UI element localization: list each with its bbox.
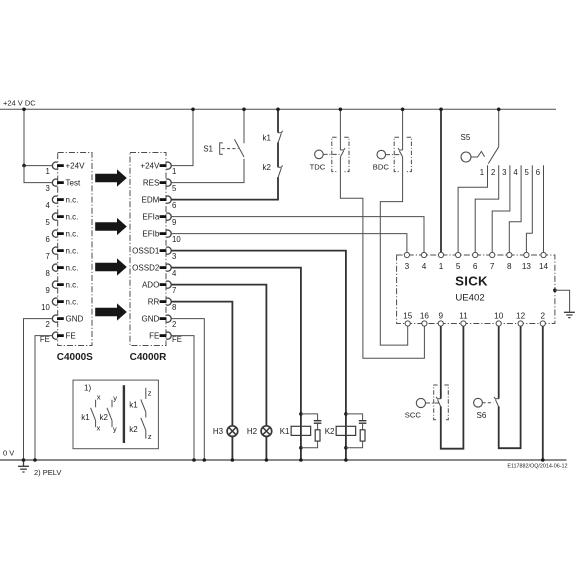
UE402 bottom pin 9 terminal <box>438 321 443 326</box>
junction rail at x193 <box>191 108 195 112</box>
UE402 top pin 6 terminal <box>473 252 478 257</box>
svg-text:11: 11 <box>459 312 468 321</box>
UE402 bottom pin 2 terminal <box>540 321 545 326</box>
svg-text:FE: FE <box>40 335 50 344</box>
svg-text:+24V: +24V <box>140 162 160 171</box>
svg-text:1: 1 <box>480 168 484 177</box>
svg-text:k2: k2 <box>129 425 138 434</box>
svg-text:ADO: ADO <box>142 281 159 290</box>
svg-text:n.c.: n.c. <box>66 281 79 290</box>
svg-text:y: y <box>113 425 117 434</box>
svg-text:OSSD2: OSSD2 <box>132 264 160 273</box>
C4000S pin 10 plug <box>57 300 64 303</box>
svg-text:9: 9 <box>439 312 444 321</box>
svg-text:n.c.: n.c. <box>66 298 79 307</box>
resistor K1 snubber <box>315 430 320 441</box>
svg-text:EDM: EDM <box>142 196 160 205</box>
junction C4000R GND on 0V rail <box>203 458 207 462</box>
relay contact k1 <box>278 131 283 143</box>
switch S6 actuator circle <box>474 398 483 407</box>
svg-text:FE: FE <box>66 332 76 341</box>
svg-text:EFIa: EFIa <box>142 213 159 222</box>
wire K2 snubber branch bottom <box>346 441 363 448</box>
junction GND on 0V rail <box>22 458 26 462</box>
svg-text:8: 8 <box>45 269 49 278</box>
wire C4000R EFIb pin 10 to UE402 pin 3 <box>171 234 407 253</box>
wire 0 V rail <box>0 459 567 461</box>
svg-text:1: 1 <box>45 167 49 176</box>
junction H3 on 0V rail <box>231 458 235 462</box>
wire C4000R EFIa pin 9 to UE402 pin 4 <box>171 217 424 253</box>
wire S5 contact 5 to UE402 pin 13 <box>526 165 532 252</box>
UE402 top pin 8 terminal <box>507 252 512 257</box>
UE402 top pin 1 terminal <box>438 252 443 257</box>
wire branch to C4000S Test pin 3 <box>24 166 53 183</box>
svg-text:6: 6 <box>172 201 176 210</box>
wire coil K1 to 0V <box>300 413 302 461</box>
wire UE402 pin 2 to 0V <box>542 326 544 460</box>
svg-text:n.c.: n.c. <box>66 247 79 256</box>
wire K2 snubber branch top <box>346 414 363 420</box>
junction FE on 0V rail <box>33 458 37 462</box>
junction UE402 earth tap <box>553 288 557 292</box>
wire C4000S GND pin 2 to 0V <box>24 319 53 460</box>
junction at C4000S pin1 branch <box>22 164 26 168</box>
svg-text:10: 10 <box>494 312 504 321</box>
C4000S pin 5 plug <box>57 215 64 218</box>
svg-text:H3: H3 <box>213 427 224 436</box>
wire +24V drop to C4000S pin 1 <box>24 109 53 165</box>
svg-text:10: 10 <box>172 235 181 244</box>
legend series contact k1 z <box>141 388 146 418</box>
wire K1 snubber branch bottom <box>301 441 318 448</box>
svg-text:4: 4 <box>45 201 50 210</box>
switch S6 actuator link <box>482 402 493 404</box>
svg-text:k1: k1 <box>129 400 138 409</box>
svg-text:10: 10 <box>41 303 50 312</box>
UE402 bottom pin 11 terminal <box>461 321 466 326</box>
C4000R pin 10 socket <box>166 230 171 237</box>
svg-text:+24V: +24V <box>66 162 86 171</box>
svg-text:3: 3 <box>45 184 49 193</box>
wire C4000R ADO pin 7 to lamp H2 <box>171 285 266 426</box>
svg-text:12: 12 <box>516 312 526 321</box>
svg-text:2: 2 <box>491 168 495 177</box>
relay contact k2 <box>278 165 283 177</box>
svg-text:OSSD1: OSSD1 <box>132 247 160 256</box>
UE402 top pin 14 terminal <box>541 252 546 257</box>
C4000R pin 6 socket <box>166 196 171 203</box>
svg-text:UE402: UE402 <box>455 293 484 304</box>
arrow beam 4 from sender to receiver <box>95 303 127 320</box>
C4000S pin 10 socket <box>52 298 57 305</box>
UE402 top pin 3 terminal <box>404 252 409 257</box>
wire rail to selector S5 <box>498 109 500 147</box>
svg-text:n.c.: n.c. <box>66 264 79 273</box>
C4000R pin 7 plug <box>160 283 167 286</box>
C4000R pin 2 socket <box>166 315 171 322</box>
ground PELV earth symbol <box>18 460 29 472</box>
wire C4000R FE to 0V <box>171 336 194 460</box>
svg-text:BDC: BDC <box>373 162 390 171</box>
wire rail to contact k1 <box>277 109 279 132</box>
svg-text:k2: k2 <box>100 413 109 422</box>
wire K1 snubber branch top <box>301 414 318 420</box>
svg-text:9: 9 <box>45 286 49 295</box>
C4000S pin 8 plug <box>57 266 64 269</box>
C4000R pin 8 plug <box>160 300 167 303</box>
C4000R pin 1 plug <box>160 164 167 167</box>
svg-text:7: 7 <box>45 252 49 261</box>
wire UE402 to functional earth <box>555 290 570 312</box>
cam contact BDC <box>398 148 403 156</box>
svg-text:C4000R: C4000R <box>130 352 167 363</box>
junction K1 on 0V rail <box>299 458 303 462</box>
junction rail at k1k2 <box>276 108 280 112</box>
wire +24 V DC supply rail <box>0 108 556 110</box>
svg-text:9: 9 <box>172 218 176 227</box>
C4000R pin 4 socket <box>166 264 171 271</box>
junction rail at S5 <box>497 108 501 112</box>
svg-text:RR: RR <box>148 298 160 307</box>
svg-text:3: 3 <box>172 252 176 261</box>
svg-text:n.c.: n.c. <box>66 196 79 205</box>
junction K2 on 0V rail <box>344 458 348 462</box>
selector S5 link <box>471 151 485 157</box>
UE402 bottom pin 12 terminal <box>518 321 523 326</box>
svg-text:7: 7 <box>172 286 176 295</box>
C4000R pin FE socket <box>166 332 171 339</box>
wire lamp H3 to 0V <box>231 436 233 460</box>
svg-text:15: 15 <box>403 312 413 321</box>
svg-text:E117882/OQ/2014-06-12: E117882/OQ/2014-06-12 <box>507 463 567 469</box>
cam contact TDC <box>340 148 345 156</box>
junction rail at S1 <box>242 108 246 112</box>
cam BDC actuator link <box>386 154 403 156</box>
lamp H3 <box>227 426 238 437</box>
contactor coil K2 <box>336 426 356 435</box>
capacitor K2 snubber <box>359 421 367 424</box>
wire rail to cam switch TDC <box>339 109 341 150</box>
svg-text:k1: k1 <box>81 413 90 422</box>
cam BDC actuator circle <box>377 150 386 159</box>
resistor K2 snubber <box>360 430 365 441</box>
C4000S pin 7 socket <box>52 247 57 254</box>
svg-text:8: 8 <box>172 303 176 312</box>
lamp H2 <box>261 426 272 437</box>
svg-text:2: 2 <box>172 320 176 329</box>
svg-text:4: 4 <box>172 269 177 278</box>
wire SCC to UE402 pin 11 <box>441 326 464 449</box>
pushbutton S1 actuator <box>220 143 223 154</box>
C4000R pin 5 socket <box>166 179 171 186</box>
cam SCC housing brackets <box>434 385 449 420</box>
C4000R pin 10 plug <box>160 232 167 235</box>
C4000S pin 6 plug <box>57 232 64 235</box>
cam SCC actuator circle <box>416 398 425 407</box>
UE402 bottom pin 10 terminal <box>496 321 501 326</box>
legend divider bar <box>123 385 125 443</box>
svg-text:n.c.: n.c. <box>66 230 79 239</box>
wire C4000R +24V pin 1 to rail <box>171 109 193 165</box>
junction K1 snubber bottom <box>299 446 303 450</box>
svg-text:2) PELV: 2) PELV <box>34 468 61 477</box>
C4000S pin 9 plug <box>57 283 64 286</box>
C4000R pin 7 socket <box>166 281 171 288</box>
junction H2 on 0V rail <box>265 458 269 462</box>
svg-text:5: 5 <box>525 168 530 177</box>
safety relay UE402 outline <box>397 255 555 324</box>
receiver C4000R outline <box>130 153 166 346</box>
UE402 top pin 13 terminal <box>524 252 529 257</box>
C4000R pin FE plug <box>160 334 167 337</box>
C4000R pin 4 plug <box>160 266 167 269</box>
svg-text:H2: H2 <box>247 427 258 436</box>
svg-text:n.c.: n.c. <box>66 213 79 222</box>
svg-text:5: 5 <box>45 218 50 227</box>
svg-text:y: y <box>113 393 117 402</box>
legend contact k2 y-y <box>107 400 112 427</box>
cam TDC actuator link <box>323 153 340 155</box>
C4000S pin 1 plug <box>57 164 64 167</box>
legend series contact k2 z <box>141 418 146 439</box>
C4000S pin 6 socket <box>52 230 57 237</box>
UE402 top pin 4 terminal <box>421 252 426 257</box>
svg-text:3: 3 <box>405 262 410 271</box>
svg-text:x: x <box>97 424 101 433</box>
legend contact k1 x-x <box>91 400 96 427</box>
C4000S pin 2 plug <box>57 317 64 320</box>
svg-text:1: 1 <box>439 262 444 271</box>
junction K2 snubber bottom <box>344 446 348 450</box>
C4000R pin 1 socket <box>166 162 171 169</box>
svg-text:FE: FE <box>172 335 182 344</box>
svg-text:k2: k2 <box>263 163 272 172</box>
arrow beam 2 from sender to receiver <box>95 218 127 235</box>
junction K2 snubber top <box>344 412 348 416</box>
junction K1 snubber top <box>299 412 303 416</box>
svg-text:5: 5 <box>172 184 177 193</box>
wire S5 contact 1 to UE402 pin 5 <box>458 165 487 252</box>
svg-text:6: 6 <box>45 235 49 244</box>
svg-text:13: 13 <box>522 262 532 271</box>
svg-text:C4000S: C4000S <box>57 352 93 363</box>
UE402 top pin 5 terminal <box>456 252 461 257</box>
C4000S pin 8 socket <box>52 264 57 271</box>
svg-text:SCC: SCC <box>405 410 422 419</box>
wire C4000S FE to 0V <box>35 336 53 460</box>
svg-text:Test: Test <box>66 179 81 188</box>
svg-text:4: 4 <box>422 262 427 271</box>
svg-text:4: 4 <box>513 168 518 177</box>
svg-text:0 V: 0 V <box>3 448 14 457</box>
C4000S pin 2 socket <box>52 315 57 322</box>
C4000S pin 1 socket <box>52 162 57 169</box>
svg-text:6: 6 <box>536 168 540 177</box>
selector S5 blade <box>488 147 498 164</box>
selector S5 knob <box>461 152 471 162</box>
wire coil K2 to 0V <box>345 413 347 461</box>
wire C4000R OSSD2 pin 4 to contactor K1 <box>171 268 301 413</box>
C4000R pin 5 plug <box>160 181 167 184</box>
wire C4000R GND pin 2 to 0V <box>171 319 204 460</box>
svg-text:k1: k1 <box>263 134 272 143</box>
svg-text:14: 14 <box>539 262 549 271</box>
C4000S pin 3 plug <box>57 181 64 184</box>
capacitor K1 snubber <box>314 421 322 424</box>
svg-text:2: 2 <box>45 320 49 329</box>
svg-text:FE: FE <box>149 332 159 341</box>
svg-text:1: 1 <box>172 167 176 176</box>
wire S5 contact 6 to UE402 pin 14 <box>543 165 545 252</box>
svg-text:z: z <box>148 389 152 398</box>
svg-text:16: 16 <box>420 312 430 321</box>
wire BDC to UE402 pin 15 <box>380 157 407 346</box>
switch contact S6 <box>494 397 499 407</box>
svg-text:7: 7 <box>490 262 495 271</box>
wire k2 to C4000R EDM pin 6 <box>171 177 278 200</box>
wire C4000R RR pin 8 to lamp H3 <box>171 302 232 426</box>
svg-text:GND: GND <box>142 315 160 324</box>
wire lamp H2 to 0V <box>265 436 267 460</box>
C4000S pin FE plug <box>57 334 64 337</box>
UE402 bottom pin 16 terminal <box>422 321 427 326</box>
svg-text:RES: RES <box>143 179 159 188</box>
UE402 bottom pin 15 terminal <box>405 321 410 326</box>
wire S6 to UE402 pin 12 <box>499 326 521 448</box>
wire K2 cap to resistor <box>362 424 364 430</box>
cam BDC housing brackets <box>394 137 411 171</box>
C4000S pin 7 plug <box>57 249 64 252</box>
arrow beam 1 from sender to receiver <box>95 169 127 186</box>
wire rail to S1 upper terminal <box>243 109 245 143</box>
C4000S pin 9 socket <box>52 281 57 288</box>
UE402 top pin 7 terminal <box>490 252 495 257</box>
contactor coil K1 <box>291 426 311 435</box>
junction C4000R FE on 0V rail <box>192 458 196 462</box>
C4000S pin 3 socket <box>52 179 57 186</box>
svg-text:S1: S1 <box>203 145 213 154</box>
C4000S pin FE socket <box>52 332 57 339</box>
wire rail to cam switch BDC <box>402 109 404 150</box>
svg-text:S5: S5 <box>461 133 471 142</box>
C4000R pin 9 plug <box>160 215 167 218</box>
cam SCC actuator link <box>426 402 441 404</box>
C4000R pin 2 plug <box>160 317 167 320</box>
svg-text:S6: S6 <box>477 411 487 420</box>
wire UE402 pin 9 to cam SCC <box>440 326 442 399</box>
svg-text:+24 V DC: +24 V DC <box>3 99 36 108</box>
junction rail at BDC <box>401 108 405 112</box>
svg-text:2: 2 <box>541 312 546 321</box>
wire S5 contact 4 to UE402 pin 8 <box>509 165 521 252</box>
wire K1 cap to resistor <box>317 424 319 430</box>
C4000R pin 3 plug <box>160 249 167 252</box>
legend box outline <box>73 380 158 449</box>
C4000R pin 3 socket <box>166 247 171 254</box>
wire UE402 pin 10 to switch S6 <box>498 326 500 399</box>
wire TDC to UE402 pin 16 <box>340 157 424 359</box>
C4000R pin 9 socket <box>166 213 171 220</box>
C4000R pin 8 socket <box>166 298 171 305</box>
svg-text:GND: GND <box>66 315 84 324</box>
junction rail at TDC <box>339 108 343 112</box>
svg-text:6: 6 <box>473 262 478 271</box>
cam TDC housing brackets <box>332 137 349 171</box>
svg-text:z: z <box>148 432 152 441</box>
wire rail to UE402 pin 1 <box>440 109 442 252</box>
C4000S pin 4 socket <box>52 196 57 203</box>
svg-text:8: 8 <box>507 262 512 271</box>
wire C4000R OSSD1 pin 3 to contactor K2 <box>171 251 346 413</box>
wire S5 contact 3 to UE402 pin 7 <box>492 165 510 252</box>
ground functional earth symbol <box>564 312 575 317</box>
svg-text:3: 3 <box>502 168 506 177</box>
junction rail at UE402 pin1 feed <box>439 108 443 112</box>
C4000S pin 4 plug <box>57 198 64 201</box>
arrow beam 3 from sender to receiver <box>95 258 127 275</box>
pushbutton S1 blade <box>235 139 245 157</box>
cam contact SCC <box>436 397 441 407</box>
wire S5 contact 2 to UE402 pin 6 <box>475 165 499 252</box>
wire S1 to C4000R RES pin 5 <box>171 159 244 183</box>
C4000R pin 6 plug <box>160 198 167 201</box>
svg-text:x: x <box>97 392 101 401</box>
wire k1 to k2 <box>277 142 279 167</box>
svg-text:EFIb: EFIb <box>142 230 159 239</box>
C4000S pin 5 socket <box>52 213 57 220</box>
junction UE402 pin 2 on 0V rail <box>541 458 545 462</box>
svg-text:SICK: SICK <box>455 274 488 289</box>
junction on +24V rail at x24 <box>22 108 26 112</box>
cam TDC actuator circle <box>315 150 324 159</box>
svg-text:K1: K1 <box>280 427 290 436</box>
svg-text:K2: K2 <box>325 427 335 436</box>
svg-text:1): 1) <box>84 384 91 393</box>
svg-text:5: 5 <box>456 262 461 271</box>
svg-text:TDC: TDC <box>310 162 326 171</box>
sender C4000S outline <box>58 153 92 346</box>
